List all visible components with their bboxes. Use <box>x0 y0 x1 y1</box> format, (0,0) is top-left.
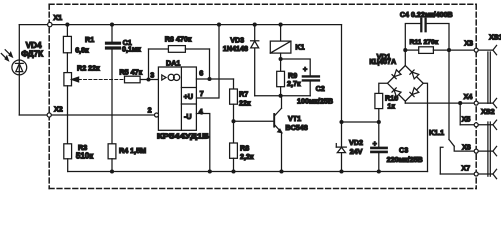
svg-text:22к: 22к <box>239 98 251 107</box>
potentiometer R2 <box>64 64 125 115</box>
node A coil bottom <box>279 57 283 61</box>
svg-text:7: 7 <box>200 89 204 98</box>
node base-R7R8 <box>231 119 235 123</box>
node out-R6 <box>207 77 211 81</box>
resistor R9 <box>277 59 301 96</box>
svg-text:100мк/25В: 100мк/25В <box>297 97 333 106</box>
resistor R1 <box>63 25 94 73</box>
connector XS1 <box>488 33 501 108</box>
svg-text:XS1: XS1 <box>489 33 501 42</box>
wire pin4 to gnd <box>196 114 209 172</box>
node X4-X5 <box>458 101 462 105</box>
svg-text:X3: X3 <box>464 38 473 47</box>
resistor R8 <box>230 121 254 171</box>
resistor R11 <box>405 39 449 53</box>
svg-text:220мк/25В: 220мк/25В <box>387 155 423 164</box>
svg-text:+: + <box>373 139 377 148</box>
svg-text:C3: C3 <box>399 146 408 155</box>
wire C1 to R4 <box>111 80 113 144</box>
svg-text:X1: X1 <box>53 13 62 22</box>
svg-text:6,8к: 6,8к <box>75 45 89 54</box>
capacitor C1 <box>107 25 142 80</box>
node gnd-R8 <box>231 169 235 173</box>
terminal X2 <box>47 105 63 118</box>
wire pin6 output <box>196 78 233 80</box>
transistor VT1 <box>274 96 308 172</box>
svg-text:X7: X7 <box>461 163 470 172</box>
svg-text:2: 2 <box>148 105 152 114</box>
svg-text:6: 6 <box>199 68 203 77</box>
wire top rail <box>19 24 341 26</box>
svg-text:X5: X5 <box>462 115 471 124</box>
dashed enclosure border <box>49 4 476 188</box>
wire X2 / pin2 net <box>19 114 154 116</box>
node +24V <box>339 120 343 124</box>
svg-text:КЦ407А: КЦ407А <box>369 57 396 66</box>
bridge rectifier VD1 <box>369 50 427 171</box>
wire X7 <box>440 173 493 175</box>
svg-text:0,1мк: 0,1мк <box>122 45 141 54</box>
svg-text:K1.1: K1.1 <box>429 128 444 137</box>
svg-text:XS2: XS2 <box>481 107 495 116</box>
svg-text:R1: R1 <box>85 35 94 44</box>
svg-text:R5 47к: R5 47к <box>119 68 142 77</box>
svg-text:2,2к: 2,2к <box>240 152 254 161</box>
svg-text:X6: X6 <box>462 142 471 151</box>
node R10-C3 <box>377 120 381 124</box>
wire photodiode left branch <box>18 25 20 115</box>
svg-text:24V: 24V <box>350 147 363 156</box>
bridge diode bottom-left <box>392 88 401 97</box>
resistor R4 <box>108 144 146 172</box>
node gnd-C3 <box>377 169 381 173</box>
wire pin7 to +rail <box>196 25 219 98</box>
terminal X3 <box>464 38 478 52</box>
resistor R3 <box>64 143 94 172</box>
relay coil K1 <box>270 25 304 59</box>
svg-text:3: 3 <box>150 71 154 80</box>
svg-text:K1: K1 <box>295 43 304 52</box>
wire X6 <box>454 146 493 151</box>
wire X4-X5 link <box>459 103 461 125</box>
wire +24V riser <box>341 25 343 122</box>
node rail-pin7 <box>217 23 221 27</box>
svg-text:C2: C2 <box>316 84 325 93</box>
capacitor C2 <box>297 65 333 106</box>
svg-text:R2 22к: R2 22к <box>77 64 100 73</box>
relay contact K1.1 <box>429 50 454 174</box>
wire X3 <box>449 49 493 51</box>
svg-text:+: + <box>303 65 307 74</box>
svg-text:R8: R8 <box>240 143 249 152</box>
wire X5 <box>460 124 493 126</box>
svg-text:+U: +U <box>184 92 193 101</box>
capacitor C4 <box>400 12 453 50</box>
photodiode VD4 <box>1 41 44 75</box>
svg-text:DA1: DA1 <box>166 59 180 68</box>
svg-text:X4: X4 <box>464 92 473 101</box>
node input-R6 <box>146 77 150 81</box>
svg-text:ФД7К: ФД7К <box>21 50 44 59</box>
svg-text:BC548: BC548 <box>285 123 307 132</box>
svg-text:1N4148: 1N4148 <box>223 44 248 53</box>
node rail-K1 <box>279 23 283 27</box>
svg-text:R4 1,5М: R4 1,5М <box>119 146 146 155</box>
terminal X5 <box>462 115 479 127</box>
bridge diode top-left <box>392 70 401 79</box>
wire +24V node <box>342 121 379 123</box>
terminal X1 <box>48 13 63 27</box>
resistor R10 <box>375 83 398 122</box>
wire collector net <box>255 95 311 97</box>
resistor R7 <box>230 79 251 121</box>
svg-text:C4 0.22мк/400В: C4 0.22мк/400В <box>400 12 453 19</box>
node gnd-VD2 <box>339 169 343 173</box>
svg-text:510к: 510к <box>76 152 94 161</box>
svg-text:2,7к: 2,7к <box>287 79 301 88</box>
wire node A <box>281 59 311 75</box>
ground rail <box>68 171 428 173</box>
node bridge-R11 <box>403 48 407 52</box>
svg-text:-U: -U <box>184 112 192 121</box>
terminal X4 <box>464 92 479 105</box>
wire X4 <box>405 102 493 104</box>
svg-text:R6 470к: R6 470к <box>165 34 192 43</box>
node collector <box>279 94 283 98</box>
resistor R6 <box>149 34 210 79</box>
svg-text:1к: 1к <box>387 102 395 111</box>
wire base <box>234 120 274 122</box>
bridge diode bottom-right <box>410 88 419 97</box>
resistor R5 <box>119 68 158 83</box>
zener VD2 <box>336 122 363 172</box>
wire R2 to R3 <box>67 115 69 144</box>
terminal X7 <box>461 163 478 176</box>
svg-text:R11 270к: R11 270к <box>410 39 439 46</box>
svg-text:VT1: VT1 <box>288 114 301 123</box>
node gnd-pin4 <box>208 169 212 173</box>
diode VD3 <box>223 25 259 96</box>
connector XS2 <box>481 107 497 179</box>
svg-text:R7: R7 <box>239 90 248 99</box>
node gnd-R4 <box>110 169 114 173</box>
node rail-C1 <box>110 23 114 27</box>
op-amp DA1 <box>148 59 209 141</box>
node rail-VD3 <box>253 23 257 27</box>
svg-text:4: 4 <box>199 107 203 116</box>
bridge diode top-right <box>410 70 419 79</box>
capacitor C3 <box>371 122 422 172</box>
node X3-C4 <box>447 48 451 52</box>
node gnd-VT1 <box>279 169 283 173</box>
svg-text:VD2: VD2 <box>349 138 363 147</box>
svg-text:X2: X2 <box>54 105 63 114</box>
svg-text:КР544УД1Б: КР544УД1Б <box>157 132 209 141</box>
terminal X6 <box>462 142 478 153</box>
node rail-R1 <box>65 23 69 27</box>
